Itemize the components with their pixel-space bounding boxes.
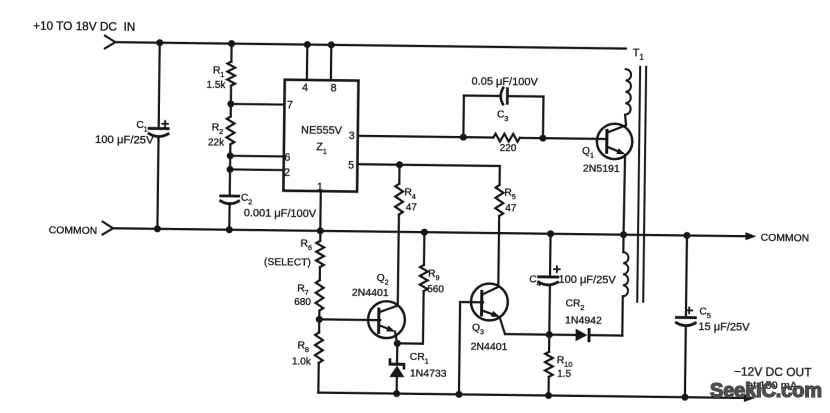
- svg-text:8: 8: [331, 82, 337, 94]
- svg-text:15 μF/25V: 15 μF/25V: [698, 321, 750, 334]
- svg-text:1.5k: 1.5k: [206, 80, 226, 91]
- svg-text:COMMON: COMMON: [761, 233, 810, 245]
- svg-text:1.0k: 1.0k: [292, 356, 312, 367]
- svg-text:1.5: 1.5: [557, 369, 571, 380]
- svg-text:47: 47: [406, 202, 418, 213]
- svg-text:1N4942: 1N4942: [565, 314, 602, 326]
- svg-text:2N4401: 2N4401: [471, 341, 508, 353]
- svg-text:+10 TO 18V DC IN: +10 TO 18V DC IN: [33, 19, 135, 34]
- svg-text:680: 680: [294, 297, 311, 308]
- svg-text:560: 560: [427, 284, 444, 295]
- svg-text:1N4733: 1N4733: [410, 367, 447, 379]
- svg-text:6: 6: [284, 152, 290, 164]
- svg-text:220: 220: [500, 143, 517, 154]
- svg-text:0.001 μF/100V: 0.001 μF/100V: [244, 207, 317, 220]
- svg-text:COMMON: COMMON: [49, 226, 98, 238]
- svg-text:4: 4: [302, 82, 308, 94]
- svg-text:5: 5: [348, 159, 354, 171]
- svg-text:47: 47: [505, 203, 517, 214]
- svg-text:100 μF/25V: 100 μF/25V: [559, 274, 617, 287]
- svg-text:1: 1: [317, 181, 323, 193]
- svg-text:0.05 μF/100V: 0.05 μF/100V: [471, 75, 538, 88]
- svg-text:2N4401: 2N4401: [352, 287, 389, 299]
- svg-text:22k: 22k: [208, 137, 225, 148]
- svg-text:−12V DC OUT: −12V DC OUT: [734, 365, 813, 380]
- svg-text:(SELECT): (SELECT): [264, 257, 311, 269]
- svg-text:SeekIC.com: SeekIC.com: [710, 380, 822, 402]
- svg-text:2: 2: [284, 167, 290, 179]
- svg-text:7: 7: [287, 99, 293, 111]
- svg-text:NE555V: NE555V: [301, 124, 343, 137]
- svg-text:2N5191: 2N5191: [583, 163, 620, 175]
- svg-text:100 μF/25V: 100 μF/25V: [95, 134, 154, 147]
- svg-text:3: 3: [349, 130, 355, 142]
